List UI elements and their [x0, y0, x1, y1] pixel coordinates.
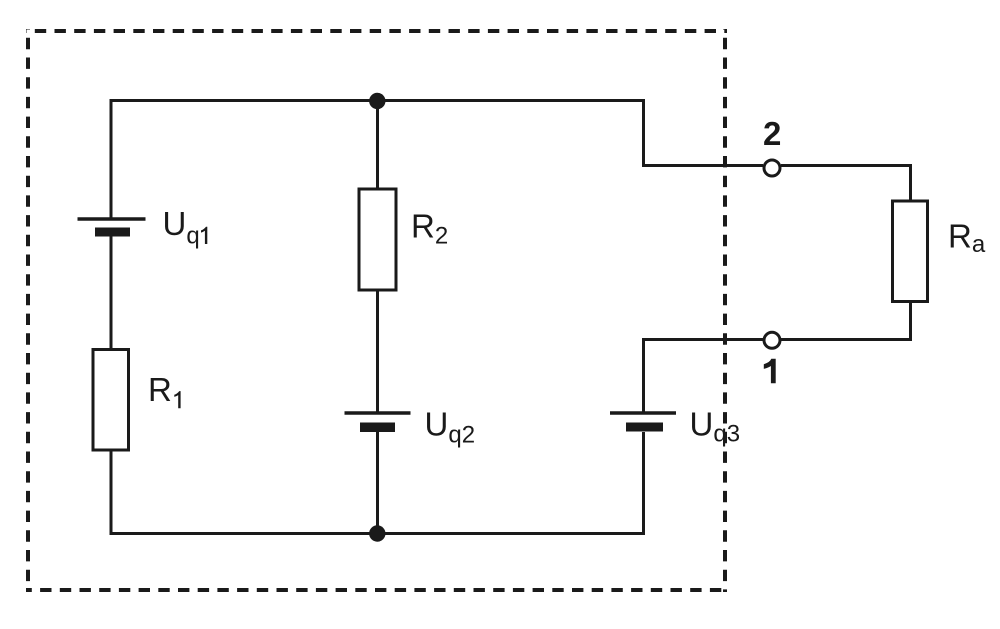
resistor R1: [93, 350, 129, 451]
svg-text:R: R: [148, 371, 172, 408]
wire left vertical lower: [110, 450, 113, 535]
wire Ra vertical upper: [909, 164, 912, 202]
dashed enclosure border bottom: [26, 588, 727, 592]
battery Uq3 short thick plate: [626, 423, 663, 432]
wire top horizontal: [111, 99, 644, 102]
label terminal 1: [764, 359, 776, 384]
wire middle vertical lower: [376, 432, 379, 534]
dashed enclosure border left: [26, 29, 30, 592]
wire Ra vertical lower: [909, 302, 912, 342]
wire Ra to terminal 1: [781, 338, 911, 341]
wire terminal 2 to Ra: [781, 164, 911, 167]
terminal 1: [764, 332, 780, 348]
wire top right step down: [642, 99, 645, 166]
battery Uq2 short thick plate: [360, 423, 395, 433]
wire Uq3 vertical lower: [642, 432, 645, 535]
resistor R2: [359, 189, 396, 290]
wire Uq3 vertical upper: [642, 338, 645, 412]
wire middle vertical upper: [376, 101, 379, 190]
wire left vertical upper: [110, 99, 113, 218]
wire terminal 1 to Uq3 branch: [642, 338, 763, 341]
dashed enclosure border right: [723, 29, 727, 592]
battery Uq3 long plate: [610, 411, 676, 415]
resistor Ra: [893, 201, 928, 302]
terminal 2: [764, 160, 780, 176]
svg-text:2: 2: [763, 115, 781, 152]
wire to terminal 2: [642, 164, 763, 167]
node bottom junction dot: [369, 525, 385, 541]
battery Uq1 long plate: [78, 217, 146, 221]
wire left vertical middle: [110, 236, 113, 350]
node top junction dot: [369, 93, 385, 109]
battery Uq1 short thick plate: [95, 228, 130, 237]
wire bottom horizontal: [111, 532, 644, 535]
wire middle vertical middle: [376, 290, 379, 412]
dashed enclosure border top: [26, 29, 727, 33]
battery Uq2 long plate: [345, 411, 411, 415]
